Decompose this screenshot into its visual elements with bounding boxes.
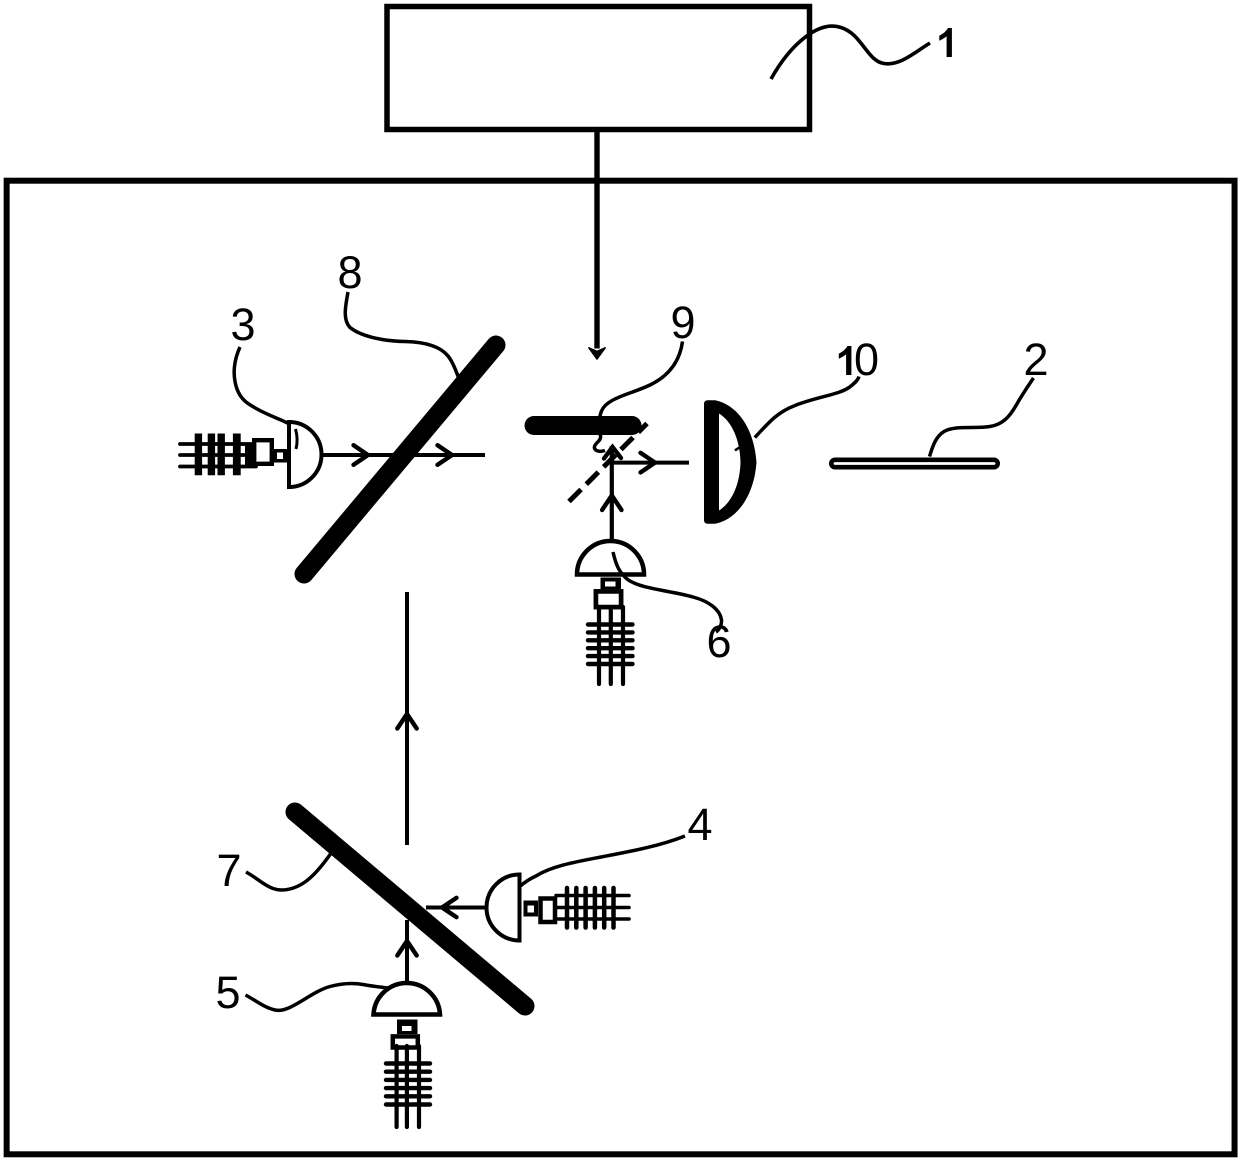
arrowhead on beam from laser 3 xyxy=(354,445,369,465)
detector 6 connector body xyxy=(596,591,621,607)
leader line to label 10 xyxy=(755,377,859,438)
beam from laser 4 to mirror 7 xyxy=(426,906,487,910)
vertical beam between mirror 8 and mirror 7 xyxy=(405,592,409,845)
wire from box 1 into enclosure xyxy=(594,131,599,349)
mirror 7 xyxy=(295,812,525,1006)
leader line to label 5 xyxy=(246,983,403,1010)
svg-text:2: 2 xyxy=(1023,334,1048,385)
laser 5 ferrule nub xyxy=(397,1020,418,1035)
leader line to label 6 xyxy=(613,552,722,632)
leader line to label 8 xyxy=(345,292,458,378)
leader line to label 7 xyxy=(246,853,332,890)
mirror 9 xyxy=(534,416,632,435)
beam from detector 6 up to beamsplitter xyxy=(610,446,614,541)
detector 6 ferrule nub xyxy=(601,578,622,590)
beam from laser 3 xyxy=(322,453,485,457)
arrowhead on beam from detector 6 xyxy=(602,496,621,511)
leader line to label 2 xyxy=(930,378,1034,457)
detector 6 dome xyxy=(577,541,644,575)
arrowhead on beam from laser 5 xyxy=(397,941,416,956)
laser 3 collimator lens dome xyxy=(289,422,322,487)
arrowhead on beam to lens 10 xyxy=(641,453,656,473)
laser 4 collimator lens dome xyxy=(487,875,520,941)
beam from laser 5 to mirror 7 xyxy=(405,920,409,983)
svg-text:8: 8 xyxy=(337,247,362,298)
arrowhead on beam from laser 4 xyxy=(442,898,457,917)
label 10 xyxy=(839,346,852,375)
arrowhead on vertical beam wire xyxy=(397,714,416,729)
svg-text:7: 7 xyxy=(216,845,241,896)
svg-text:4: 4 xyxy=(687,799,712,850)
laser 3 fiber pigtail xyxy=(180,434,256,476)
mirror 8 xyxy=(304,345,496,574)
sample 2 xyxy=(831,460,997,467)
laser 3 connector body xyxy=(254,440,272,464)
laser 5 fiber pigtail xyxy=(386,1046,430,1127)
leader line to label 4 xyxy=(507,836,686,905)
svg-text:9: 9 xyxy=(670,297,695,348)
label 1 xyxy=(939,28,952,57)
laser 5 connector body xyxy=(393,1036,418,1047)
leader line to label 9 xyxy=(594,342,682,452)
beam wire from beamsplitter to lens 10 xyxy=(612,461,689,465)
svg-text:5: 5 xyxy=(215,967,240,1018)
laser 4 fiber pigtail xyxy=(556,888,629,928)
svg-text:3: 3 xyxy=(230,299,255,350)
laser 4 connector body xyxy=(541,899,556,923)
box 1 (light source unit) xyxy=(387,7,810,130)
leader line to label 3 xyxy=(234,347,288,424)
lens 10 xyxy=(704,400,757,524)
laser 5 collimator lens dome xyxy=(374,983,441,1014)
arrowhead on beam from laser 3 after mirror 8 xyxy=(438,445,453,465)
leader line to label 1 xyxy=(771,26,930,79)
laser 4 ferrule nub xyxy=(524,901,539,917)
beamsplitter dashed diagonal xyxy=(569,424,647,502)
arrowhead down into enclosure xyxy=(589,348,605,359)
laser 3 ferrule nub xyxy=(274,449,287,463)
detector 6 fiber pigtail xyxy=(588,607,633,684)
small arrowhead at beamsplitter xyxy=(604,447,621,459)
svg-text:6: 6 xyxy=(706,616,731,667)
